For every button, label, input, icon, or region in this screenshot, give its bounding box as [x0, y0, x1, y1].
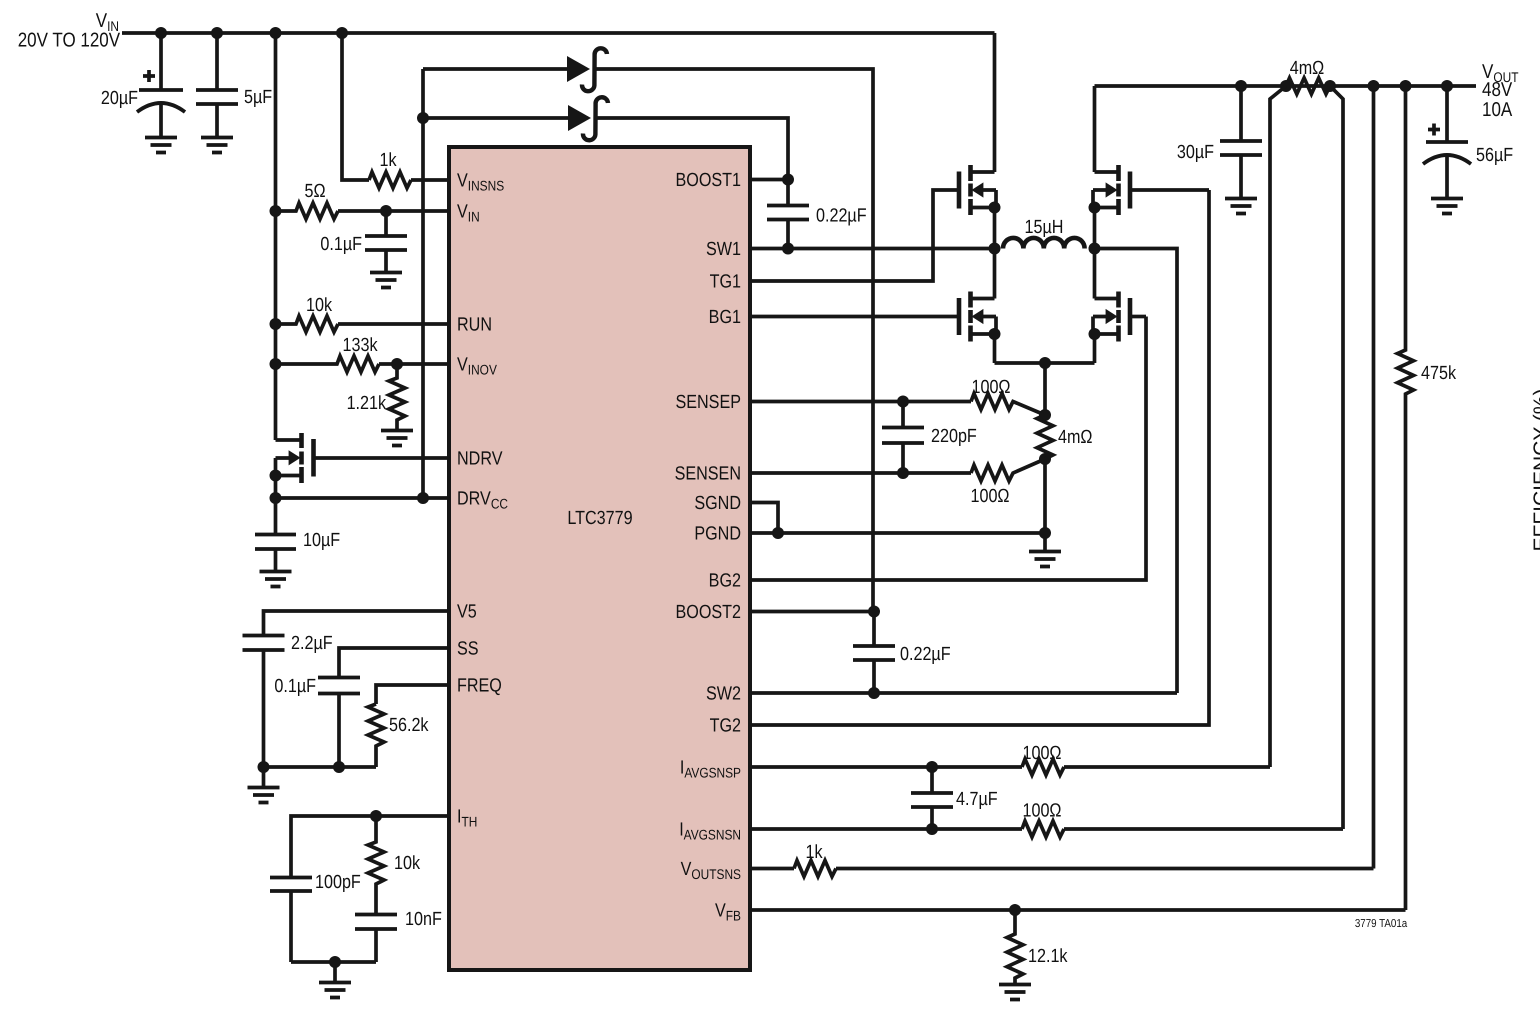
capacitor 30uF output: [1177, 86, 1262, 198]
svg-text:15µH: 15µH: [1025, 217, 1064, 238]
wire VOUTSNS vertical: [1372, 86, 1376, 869]
ground ITH: [319, 962, 351, 998]
resistor 100ohm IAVGSNSN: [1022, 801, 1064, 838]
transistor Q1 buck top NFET: [959, 33, 1001, 249]
svg-text:10A: 10A: [1482, 99, 1513, 121]
capacitor 2.2uF V5: [243, 633, 333, 767]
wire PGND: [751, 531, 1045, 535]
svg-text:NDRV: NDRV: [457, 449, 503, 470]
wire 133k to VINOV pin: [379, 362, 449, 366]
svg-text:1k: 1k: [380, 150, 397, 171]
node junction BOOST1: [782, 174, 794, 186]
node junction diode D2: [417, 112, 429, 124]
node junction PGND ground: [1039, 527, 1051, 539]
ground 20uF: [145, 138, 177, 153]
node junction SGND PGND: [772, 527, 784, 539]
resistor 133k VINOV: [276, 335, 380, 372]
wire IAVGSNSN to kelvin: [1064, 827, 1343, 831]
wire diode D1 anode: [423, 67, 567, 71]
ground 30uF: [1225, 199, 1257, 214]
ground 12.1k: [999, 985, 1031, 1000]
wire SW1: [751, 247, 996, 251]
svg-text:FREQ: FREQ: [457, 676, 502, 697]
node junction VOUTSNS rail: [1368, 80, 1380, 92]
node junction DRVCC: [270, 492, 282, 504]
wire diode D1 cathode to boost2: [596, 69, 873, 612]
svg-text:V5: V5: [457, 602, 477, 623]
svg-text:5µF: 5µF: [244, 87, 272, 108]
node junction 5ohm: [270, 205, 282, 217]
capacitor 56uF output electrolytic: [1423, 86, 1513, 198]
wire common source to sense: [995, 361, 1095, 365]
wire FREQ to 56.2k: [376, 685, 449, 704]
svg-text:4mΩ: 4mΩ: [1058, 427, 1093, 448]
wire left main vertical from VIN rail: [274, 33, 278, 440]
resistor 4mohm output shunt: [1280, 58, 1336, 94]
svg-text:56.2k: 56.2k: [389, 715, 429, 736]
capacitor 220pF sense filter: [882, 402, 977, 474]
resistor 4mohm current sense: [1037, 409, 1093, 465]
node SW1 inductor left: [989, 243, 1001, 255]
wire SENSEP: [751, 400, 971, 404]
svg-text:10k: 10k: [306, 295, 332, 316]
node junction 4.7uF top: [926, 761, 938, 773]
wire VIN rail: [122, 31, 995, 35]
capacitor 10uF DRVCC: [255, 530, 340, 571]
svg-text:4.7µF: 4.7µF: [956, 789, 998, 810]
wire DRVCC node: [276, 476, 450, 535]
node junction ITH ground: [329, 956, 341, 968]
node junction VIN rail: [155, 27, 348, 39]
svg-text:56µF: 56µF: [1476, 145, 1513, 166]
wire VOUTSNS to rail: [836, 867, 1374, 871]
svg-text:3779 TA01a: 3779 TA01a: [1355, 918, 1408, 930]
svg-text:12.1k: 12.1k: [1028, 946, 1068, 967]
capacitor 0.22uF BOOST2: [853, 612, 951, 694]
node junction SS ground: [333, 761, 345, 773]
wire BOOST1 pin: [751, 178, 788, 182]
wire BG1: [751, 315, 957, 319]
wire VOUT rail: [1095, 84, 1477, 88]
wire SS to 0.1uF: [339, 648, 449, 677]
wire VFB: [751, 908, 1406, 912]
svg-text:133k: 133k: [343, 335, 378, 356]
wire VOUTSNS pin: [751, 867, 794, 871]
svg-text:20V TO 120V: 20V TO 120V: [18, 30, 121, 52]
svg-text:RUN: RUN: [457, 315, 492, 336]
capacitor 10nF ITH: [355, 909, 442, 962]
diode D2 boost1 schottky: [568, 97, 608, 140]
svg-text:5Ω: 5Ω: [304, 181, 325, 202]
svg-text:100Ω: 100Ω: [970, 486, 1009, 507]
resistor 1k VINSNS: [369, 150, 411, 188]
capacitor 100pF ITH: [270, 872, 361, 962]
svg-text:2.2µF: 2.2µF: [291, 633, 333, 654]
resistor 475k feedback top: [1398, 86, 1457, 910]
wire BOOST2: [751, 610, 874, 614]
wire NDRV gate to pin: [314, 456, 450, 460]
ground 1.21k: [381, 431, 413, 446]
svg-text:10k: 10k: [394, 853, 420, 874]
svg-text:0.1µF: 0.1µF: [320, 234, 362, 255]
svg-text:BG1: BG1: [709, 307, 741, 328]
wire kelvin sense P: [1270, 86, 1286, 767]
node junction 0.1uF VIN: [380, 205, 392, 217]
capacitor 4.7uF average sense: [911, 767, 998, 829]
ground 10uF: [260, 572, 292, 587]
svg-text:PGND: PGND: [694, 524, 741, 545]
svg-text:30µF: 30µF: [1177, 142, 1214, 163]
node junction SW1 cap: [782, 243, 794, 255]
node SW2 inductor right: [1089, 243, 1101, 255]
node junction VFB divider: [1009, 904, 1021, 916]
node junction SW2 cap: [868, 687, 880, 699]
wire boost diode feed vertical: [421, 69, 425, 498]
node junction 4.7uF bottom: [926, 823, 938, 835]
wire 1k to VINSNS pin: [411, 178, 449, 182]
svg-text:1.21k: 1.21k: [347, 393, 387, 414]
node junction SENSEN 220pF: [897, 467, 909, 479]
inductor L1 15uH: [1003, 217, 1085, 249]
svg-text:100Ω: 100Ω: [1022, 743, 1061, 764]
ground 0.1uF VIN: [370, 273, 402, 288]
transistor Q4 boost bottom NFET: [1089, 249, 1147, 364]
svg-text:20µF: 20µF: [101, 88, 138, 109]
resistor 5ohm VIN filter: [276, 181, 339, 219]
diode D1 boost1 schottky: [567, 48, 607, 91]
wire IAVGSNSN: [751, 827, 1022, 831]
transistor Q2 boost top NFET: [1089, 86, 1210, 249]
svg-text:0.1µF: 0.1µF: [274, 676, 316, 697]
wire TG1: [751, 190, 957, 281]
svg-text:0.22µF: 0.22µF: [816, 206, 867, 227]
svg-text:EFFICIENCY (%): EFFICIENCY (%): [1530, 389, 1540, 552]
node junction SENSEP 220pF: [897, 396, 909, 408]
wire kelvin sense N: [1330, 86, 1343, 829]
wire sense bottom to PGND: [1043, 459, 1047, 533]
node junction 1.21k: [391, 358, 403, 370]
svg-text:TG1: TG1: [710, 272, 741, 293]
node junction VINOV: [270, 358, 282, 370]
svg-text:100pF: 100pF: [315, 872, 361, 893]
wire SENSEN: [751, 471, 971, 475]
svg-text:1k: 1k: [806, 842, 823, 863]
svg-text:4mΩ: 4mΩ: [1290, 58, 1325, 79]
wire SW2 pin: [751, 691, 1177, 695]
svg-text:100Ω: 100Ω: [1022, 801, 1061, 822]
svg-text:BG2: BG2: [709, 571, 741, 592]
wire diode D2 anode: [423, 116, 568, 120]
svg-text:BOOST1: BOOST1: [675, 170, 741, 191]
wire V5 to 2.2uF: [264, 611, 450, 635]
resistor 10k ITH: [368, 816, 420, 914]
transistor Q3 buck bottom NFET: [959, 249, 1001, 364]
ground 5uF: [201, 138, 233, 153]
node junction BOOST2: [868, 606, 880, 618]
wire VINSNS branch: [342, 33, 369, 180]
op-amp U1 LTC3779 controller IC body: [449, 147, 750, 970]
svg-text:LTC3779: LTC3779: [567, 508, 632, 529]
resistor 12.1k feedback bottom: [1007, 910, 1068, 984]
node VIN input label: [18, 10, 121, 52]
capacitor 0.1uF VIN pin: [320, 211, 407, 272]
capacitor 0.1uF SS: [274, 676, 360, 767]
node junction V5 ground: [258, 761, 270, 773]
svg-text:SENSEN: SENSEN: [675, 464, 741, 485]
resistor 56.2k FREQ: [368, 704, 429, 767]
node junction sense top: [1039, 357, 1051, 369]
wire IAVGSNSP: [751, 765, 1022, 769]
wire V5 SS FREQ ground bus: [264, 765, 377, 769]
wire diode D2 cathode to BOOST1: [597, 118, 788, 180]
svg-text:0.22µF: 0.22µF: [900, 644, 951, 665]
wire SGND: [751, 503, 778, 534]
svg-text:48V: 48V: [1482, 79, 1513, 101]
wire ITH ground bus: [291, 960, 376, 964]
node junction RUN: [270, 318, 282, 330]
capacitor 20uF input electrolytic: [101, 33, 185, 137]
svg-text:10µF: 10µF: [303, 530, 340, 551]
transistor Q5 NDRV external NFET: [270, 433, 314, 483]
capacitor 0.22uF BOOST1: [767, 180, 867, 249]
node junction 56uF rail: [1441, 80, 1453, 92]
wire TG2: [751, 190, 1209, 725]
svg-text:SS: SS: [457, 639, 479, 660]
resistor 10k RUN: [276, 295, 339, 332]
resistor 100ohm SENSEN: [970, 459, 1045, 507]
svg-text:SW2: SW2: [706, 684, 741, 705]
ground PGND: [1029, 533, 1061, 567]
wire IAVGSNSP to kelvin: [1064, 765, 1270, 769]
svg-text:SGND: SGND: [694, 493, 741, 514]
svg-text:220pF: 220pF: [931, 426, 977, 447]
svg-text:SW1: SW1: [706, 239, 741, 260]
svg-text:475k: 475k: [1421, 363, 1456, 384]
node junction DRVCC diode feed: [417, 492, 429, 504]
wire 10k to RUN pin: [338, 322, 449, 326]
wire BG2: [751, 317, 1146, 581]
wire 5ohm to VIN pin: [338, 209, 449, 213]
node junction 475k rail: [1400, 80, 1412, 92]
wire sense node: [1043, 363, 1047, 415]
resistor 1k VOUTSNS: [794, 842, 836, 877]
node junction 30uF: [1235, 80, 1247, 92]
resistor 100ohm SENSEP: [971, 377, 1045, 415]
svg-text:100Ω: 100Ω: [971, 377, 1010, 398]
svg-text:TG2: TG2: [710, 716, 741, 737]
resistor 1.21k VINOV divider: [347, 364, 405, 430]
ground 56uF: [1431, 199, 1463, 214]
wire SW2 link: [1095, 249, 1178, 694]
capacitor 5uF input ceramic: [196, 33, 272, 137]
wire ITH to compensation: [291, 816, 449, 877]
svg-text:BOOST2: BOOST2: [675, 602, 741, 623]
resistor 100ohm IAVGSNSP: [1022, 743, 1064, 775]
svg-text:10nF: 10nF: [405, 909, 442, 930]
ground V5 bus: [248, 767, 280, 803]
node junction ITH 10k: [370, 810, 382, 822]
node VOUT output label: [1482, 61, 1519, 121]
svg-text:SENSEP: SENSEP: [675, 392, 741, 413]
